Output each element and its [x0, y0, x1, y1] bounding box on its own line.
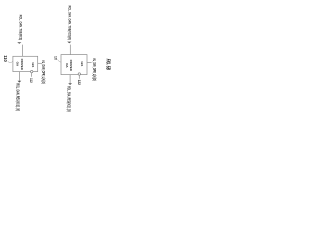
block U120 box [61, 55, 87, 75]
svg-text:AL_OAN_OPR_L(A)(0): AL_OAN_OPR_L(A)(0) [41, 60, 46, 84]
svg-text:122: 122 [77, 80, 81, 85]
wire stub below circle (left) [31, 73, 33, 77]
wire left output horizontal [38, 62, 42, 64]
leader line for 120 [58, 60, 61, 62]
arrowhead at bottom of right wire [68, 83, 72, 85]
svg-text:DRIVER: DRIVER [20, 59, 24, 71]
svg-text:RCL_SVA_OAN_TOE(0C2)(0): RCL_SVA_OAN_TOE(0C2)(0) [68, 6, 73, 41]
svg-text:120: 120 [53, 56, 57, 60]
wire stub below circle (right) [78, 75, 80, 79]
svg-text:DRIVER: DRIVER [69, 60, 73, 72]
node output circle (left block) [31, 70, 33, 72]
svg-text:110: 110 [3, 55, 8, 62]
svg-text:FIG. 5B: FIG. 5B [105, 59, 111, 70]
block U110 box [13, 56, 38, 71]
svg-text:124: 124 [31, 62, 35, 67]
arrowhead into wire (left top) [17, 42, 21, 44]
leader line for 110 [8, 61, 13, 63]
svg-text:112: 112 [29, 78, 33, 83]
arrowhead into wire (right top) [67, 42, 71, 44]
svg-text:RCL_SVA_REG(0C2)_(0): RCL_SVA_REG(0C2)_(0) [67, 86, 72, 112]
background [0, 0, 120, 120]
wire left bottom vertical [18, 72, 20, 81]
svg-text:AL_SVA_OPR_L(A)(0): AL_SVA_OPR_L(A)(0) [92, 58, 97, 81]
svg-text:124: 124 [80, 61, 84, 66]
wire right input vertical [69, 45, 71, 55]
svg-text:RCL_OAN_TOE(0C2): RCL_OAN_TOE(0C2) [18, 15, 23, 41]
wire left input vertical [22, 45, 24, 57]
wire right output horizontal [87, 62, 92, 64]
node output circle (right block) [78, 73, 80, 75]
arrowhead at bottom of left wire [18, 81, 22, 83]
svg-text:RCL_OAN_REG(0C2)_(0): RCL_OAN_REG(0C2)_(0) [16, 83, 21, 111]
wire right bottom vertical [69, 75, 71, 84]
